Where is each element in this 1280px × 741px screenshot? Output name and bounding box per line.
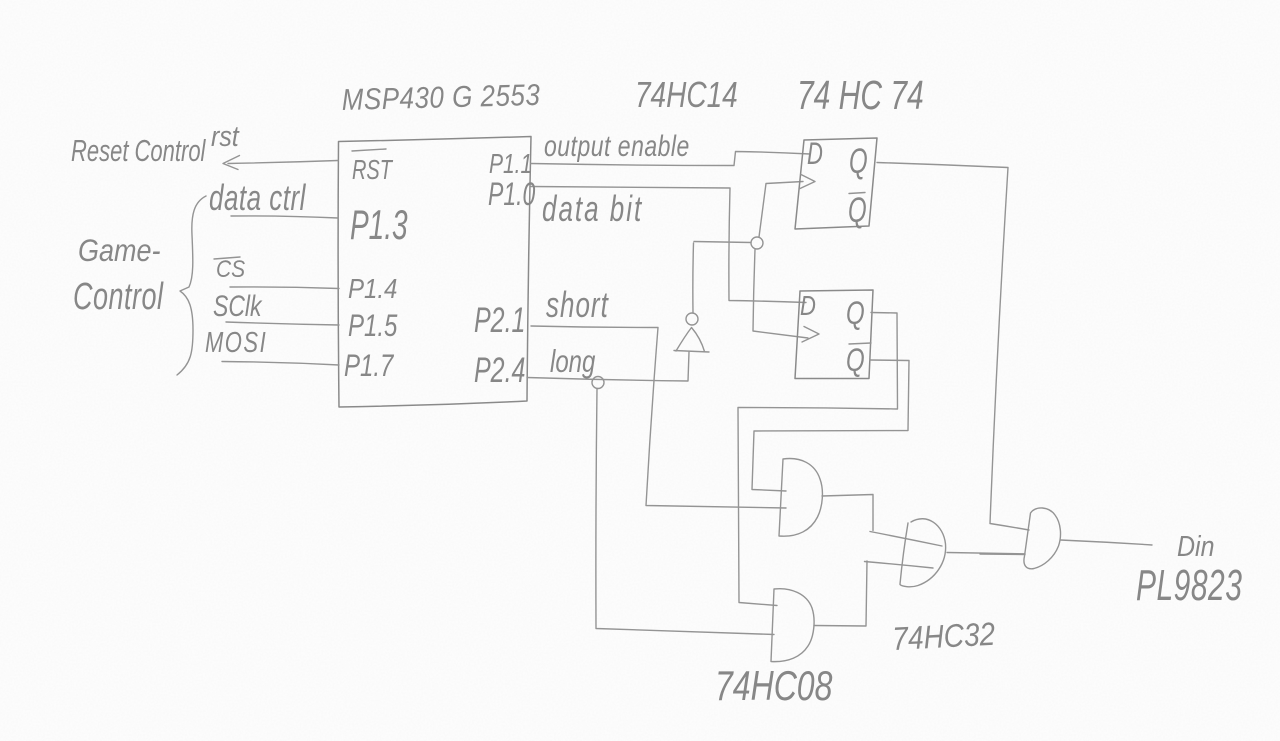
svg-text:P1.1: P1.1 (489, 149, 532, 179)
svg-text:74HC08: 74HC08 (715, 662, 833, 709)
svg-text:Q: Q (849, 143, 868, 181)
svg-text:P1.4: P1.4 (348, 272, 397, 304)
svg-text:P1.3: P1.3 (350, 201, 408, 248)
svg-text:data ctrl: data ctrl (209, 177, 306, 218)
svg-text:D: D (807, 135, 823, 171)
svg-text:Reset Control: Reset Control (71, 133, 206, 168)
svg-text:short: short (546, 284, 609, 325)
svg-text:P1.0: P1.0 (488, 176, 536, 212)
svg-text:MOSI: MOSI (205, 327, 267, 358)
svg-text:P1.7: P1.7 (344, 348, 395, 383)
svg-text:P2.1: P2.1 (474, 301, 525, 340)
svg-text:data bit: data bit (542, 188, 643, 229)
svg-text:Q: Q (846, 296, 865, 332)
svg-text:SClk: SClk (213, 289, 263, 323)
svg-text:Game-: Game- (78, 234, 161, 268)
svg-text:RST: RST (352, 155, 394, 186)
svg-text:MSP430 G 2553: MSP430 G 2553 (341, 78, 540, 116)
svg-text:Q: Q (848, 192, 867, 230)
svg-text:74HC32: 74HC32 (892, 617, 997, 658)
svg-text:PL9823: PL9823 (1136, 560, 1242, 609)
svg-text:Control: Control (73, 274, 164, 317)
svg-text:output enable: output enable (544, 129, 690, 163)
svg-text:Q: Q (846, 343, 865, 379)
svg-text:long: long (550, 344, 596, 379)
svg-text:74 HC 74: 74 HC 74 (797, 73, 924, 118)
svg-text:P1.5: P1.5 (348, 308, 398, 343)
svg-text:74HC14: 74HC14 (635, 74, 738, 114)
svg-text:D: D (800, 291, 816, 322)
svg-text:CS: CS (216, 255, 245, 283)
svg-text:Din: Din (1177, 529, 1214, 562)
svg-text:P2.4: P2.4 (474, 351, 525, 390)
svg-text:rst: rst (211, 119, 240, 152)
